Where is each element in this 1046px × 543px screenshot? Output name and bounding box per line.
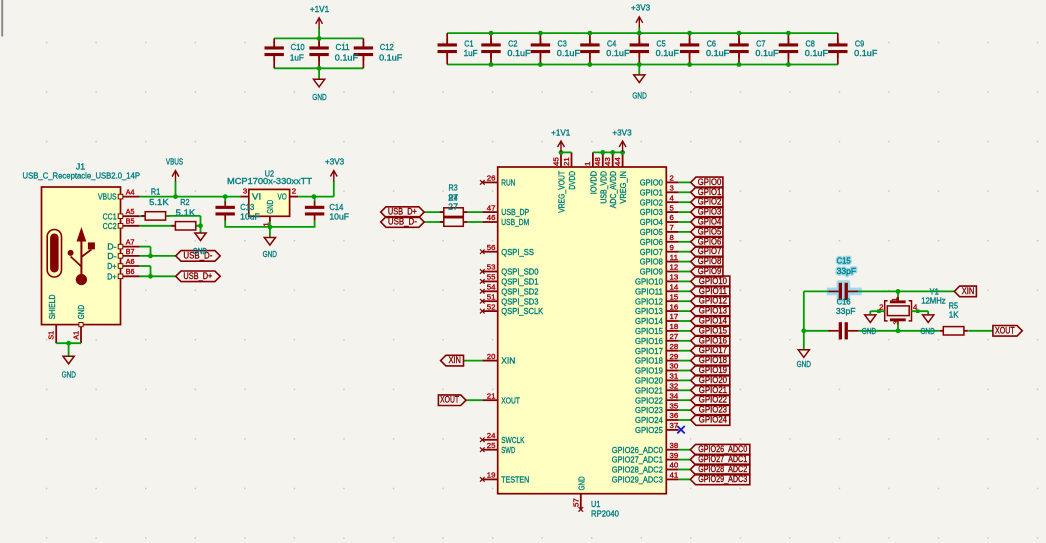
svg-text:1: 1 (892, 297, 899, 301)
svg-text:5.1K: 5.1K (149, 197, 169, 207)
svg-text:21: 21 (562, 157, 571, 166)
svg-text:1uF: 1uF (290, 53, 304, 63)
svg-text:40: 40 (670, 461, 679, 470)
svg-text:27: 27 (448, 202, 458, 212)
svg-text:21: 21 (487, 391, 496, 400)
svg-text:GPIO7: GPIO7 (640, 247, 663, 257)
svg-text:GPIO24: GPIO24 (635, 415, 663, 425)
svg-text:GPIO17: GPIO17 (635, 346, 663, 356)
svg-text:43: 43 (603, 157, 612, 166)
svg-text:VBUS: VBUS (98, 192, 117, 202)
svg-text:VO: VO (278, 192, 288, 202)
svg-text:GND: GND (76, 305, 86, 319)
svg-text:56: 56 (487, 243, 496, 252)
svg-text:A6: A6 (126, 257, 135, 266)
svg-text:11: 11 (670, 253, 679, 262)
svg-text:51: 51 (487, 292, 496, 301)
svg-text:24: 24 (487, 431, 496, 440)
svg-text:0.1uF: 0.1uF (557, 48, 580, 58)
svg-text:GPIO23: GPIO23 (635, 405, 663, 415)
svg-text:GPIO8: GPIO8 (698, 256, 722, 266)
svg-text:SHIELD: SHIELD (47, 295, 57, 320)
svg-text:GPIO29_ADC3: GPIO29_ADC3 (612, 475, 663, 485)
svg-text:10uF: 10uF (329, 212, 349, 222)
svg-text:GPIO21: GPIO21 (635, 385, 663, 395)
svg-text:A5: A5 (126, 207, 135, 216)
svg-text:U1: U1 (591, 499, 600, 509)
svg-text:27: 27 (670, 332, 679, 341)
svg-text:GPIO4: GPIO4 (698, 217, 722, 227)
svg-text:GND: GND (920, 326, 934, 336)
svg-text:R3: R3 (448, 182, 457, 192)
svg-text:C7: C7 (756, 38, 765, 48)
svg-text:17: 17 (670, 312, 679, 321)
svg-text:C8: C8 (806, 38, 815, 48)
svg-text:GND: GND (265, 200, 275, 214)
svg-text:57: 57 (572, 498, 581, 507)
svg-text:GPIO28_ADC2: GPIO28_ADC2 (612, 465, 663, 475)
svg-text:31: 31 (670, 372, 679, 381)
svg-text:USB_C_Receptacle_USB2.0_14P: USB_C_Receptacle_USB2.0_14P (23, 171, 141, 181)
svg-text:GPIO16: GPIO16 (699, 335, 727, 345)
svg-text:C16: C16 (837, 297, 851, 307)
svg-text:GPIO12: GPIO12 (699, 296, 727, 306)
svg-text:GND: GND (862, 326, 876, 336)
svg-text:GND: GND (312, 92, 326, 102)
svg-text:GPIO27_ADC1: GPIO27_ADC1 (698, 454, 747, 464)
svg-text:34: 34 (670, 391, 679, 400)
svg-text:USB_DP: USB_DP (501, 207, 529, 217)
svg-text:7: 7 (670, 223, 674, 232)
svg-text:C15: C15 (837, 256, 851, 266)
svg-text:5.1K: 5.1K (176, 207, 196, 217)
svg-text:GPIO25: GPIO25 (635, 425, 663, 435)
svg-text:2: 2 (879, 303, 883, 312)
svg-text:USB_D+: USB_D+ (388, 207, 417, 217)
svg-text:C5: C5 (656, 38, 665, 48)
svg-text:13: 13 (670, 273, 679, 282)
svg-text:1K: 1K (949, 310, 959, 320)
svg-text:GPIO6: GPIO6 (698, 236, 722, 246)
svg-text:GPIO15: GPIO15 (635, 326, 663, 336)
svg-text:GPIO5: GPIO5 (640, 227, 663, 237)
svg-text:+3V3: +3V3 (631, 3, 650, 13)
svg-text:1: 1 (583, 162, 592, 166)
svg-text:+1V1: +1V1 (310, 4, 329, 14)
svg-text:VBUS: VBUS (166, 157, 183, 167)
svg-text:3: 3 (243, 187, 247, 196)
svg-text:5: 5 (670, 203, 674, 212)
svg-text:45: 45 (551, 157, 560, 166)
svg-text:GPIO20: GPIO20 (635, 376, 663, 386)
svg-text:GPIO14: GPIO14 (635, 316, 663, 326)
svg-text:6: 6 (670, 213, 674, 222)
svg-text:QSPI_SS: QSPI_SS (501, 247, 534, 257)
svg-text:D+: D+ (107, 261, 116, 271)
svg-text:D-: D- (107, 251, 116, 261)
svg-text:12: 12 (670, 263, 679, 272)
svg-text:RP2040: RP2040 (591, 509, 619, 519)
svg-text:C12: C12 (380, 42, 394, 52)
svg-text:0.1uF: 0.1uF (379, 53, 402, 63)
svg-text:XIN: XIN (501, 356, 515, 366)
svg-text:4: 4 (670, 193, 674, 202)
svg-text:26: 26 (487, 174, 496, 183)
svg-text:GPIO1: GPIO1 (698, 187, 722, 197)
svg-text:19: 19 (487, 471, 496, 480)
svg-text:XOUT: XOUT (501, 395, 520, 405)
svg-text:ADC_AVDD: ADC_AVDD (608, 171, 618, 208)
svg-text:XOUT: XOUT (995, 325, 1015, 335)
svg-text:GPIO11: GPIO11 (635, 286, 663, 296)
svg-text:GPIO22: GPIO22 (635, 395, 663, 405)
svg-text:18: 18 (670, 322, 679, 331)
svg-text:0.1uF: 0.1uF (656, 48, 679, 58)
svg-text:GPIO12: GPIO12 (635, 296, 663, 306)
svg-text:36: 36 (670, 411, 679, 420)
svg-text:USB_DM: USB_DM (501, 217, 529, 227)
svg-text:GPIO13: GPIO13 (635, 306, 663, 316)
svg-text:48: 48 (593, 157, 602, 166)
svg-text:14: 14 (670, 283, 679, 292)
svg-text:32: 32 (670, 382, 679, 391)
svg-text:47: 47 (487, 203, 496, 212)
svg-text:GPIO9: GPIO9 (640, 267, 663, 277)
svg-text:XIN: XIN (962, 286, 975, 296)
svg-text:0.1uF: 0.1uF (755, 48, 778, 58)
svg-text:GPIO18: GPIO18 (699, 355, 727, 365)
svg-text:37: 37 (670, 421, 679, 430)
svg-text:C11: C11 (336, 42, 350, 52)
svg-text:25: 25 (487, 441, 496, 450)
svg-text:52: 52 (487, 302, 496, 311)
svg-text:MCP1700x-330xxTT: MCP1700x-330xxTT (227, 176, 313, 186)
svg-text:GPIO23: GPIO23 (699, 405, 727, 415)
svg-text:1uF: 1uF (464, 48, 478, 58)
svg-text:R2: R2 (180, 197, 189, 207)
svg-text:QSPI_SCLK: QSPI_SCLK (501, 306, 543, 316)
svg-text:C3: C3 (558, 38, 567, 48)
svg-text:0.1uF: 0.1uF (507, 48, 530, 58)
svg-text:GPIO15: GPIO15 (699, 325, 727, 335)
svg-text:IOVDD: IOVDD (588, 171, 598, 194)
svg-text:VREG_VOUT: VREG_VOUT (557, 170, 567, 212)
svg-text:GND: GND (797, 359, 811, 369)
svg-text:B5: B5 (126, 217, 135, 226)
svg-text:GPIO3: GPIO3 (640, 207, 663, 217)
svg-text:GPIO29_ADC3: GPIO29_ADC3 (698, 474, 747, 484)
svg-text:GPIO21: GPIO21 (699, 385, 727, 395)
svg-text:XIN: XIN (448, 355, 461, 365)
svg-text:DVDD: DVDD (567, 171, 577, 190)
svg-text:+1V1: +1V1 (551, 127, 570, 137)
svg-text:S1: S1 (47, 331, 56, 340)
svg-text:C13: C13 (240, 202, 254, 212)
svg-text:C2: C2 (508, 38, 517, 48)
svg-text:B6: B6 (126, 267, 135, 276)
svg-text:0.1uF: 0.1uF (706, 48, 729, 58)
svg-text:A4: A4 (126, 188, 135, 197)
svg-text:A7: A7 (126, 238, 135, 247)
svg-text:C1: C1 (464, 38, 473, 48)
svg-text:44: 44 (613, 157, 622, 166)
svg-text:+3V3: +3V3 (325, 157, 344, 167)
svg-text:GPIO10: GPIO10 (635, 277, 663, 287)
svg-text:39: 39 (670, 451, 679, 460)
svg-text:QSPI_SD2: QSPI_SD2 (501, 286, 538, 296)
svg-text:0.1uF: 0.1uF (854, 48, 877, 58)
svg-text:GPIO13: GPIO13 (699, 306, 727, 316)
svg-text:C10: C10 (291, 42, 305, 52)
svg-text:C9: C9 (855, 38, 864, 48)
svg-text:C14: C14 (329, 202, 343, 212)
svg-text:GPIO27_ADC1: GPIO27_ADC1 (612, 455, 663, 465)
svg-text:XOUT: XOUT (440, 395, 459, 405)
svg-text:RUN: RUN (501, 178, 515, 188)
svg-text:VREG_IN: VREG_IN (618, 171, 628, 204)
svg-text:GPIO18: GPIO18 (635, 356, 663, 366)
svg-text:R1: R1 (151, 186, 160, 196)
svg-text:VI: VI (252, 192, 261, 202)
svg-text:0.1uF: 0.1uF (805, 48, 828, 58)
svg-text:GND: GND (576, 476, 586, 490)
svg-text:GPIO6: GPIO6 (640, 237, 663, 247)
svg-text:35: 35 (670, 401, 679, 410)
svg-text:55: 55 (487, 273, 496, 282)
svg-text:29: 29 (670, 352, 679, 361)
svg-text:15: 15 (670, 292, 679, 301)
svg-text:4: 4 (913, 303, 917, 312)
svg-text:8: 8 (670, 233, 674, 242)
svg-text:0.1uF: 0.1uF (335, 53, 358, 63)
svg-text:GPIO26_ADC0: GPIO26_ADC0 (698, 444, 747, 454)
svg-text:41: 41 (670, 471, 679, 480)
svg-text:2: 2 (292, 187, 296, 196)
svg-text:GPIO0: GPIO0 (640, 178, 663, 188)
svg-text:GPIO7: GPIO7 (698, 246, 722, 256)
svg-text:GND: GND (632, 91, 646, 101)
svg-text:B7: B7 (126, 247, 135, 256)
svg-text:CC2: CC2 (103, 221, 117, 231)
svg-text:C4: C4 (607, 38, 616, 48)
svg-text:GPIO2: GPIO2 (640, 197, 663, 207)
svg-text:D+: D+ (107, 271, 116, 281)
svg-text:CC1: CC1 (103, 211, 117, 221)
svg-text:33pF: 33pF (836, 306, 856, 316)
svg-text:GND: GND (263, 249, 277, 259)
svg-text:GPIO11: GPIO11 (699, 286, 727, 296)
svg-text:GND: GND (193, 246, 207, 256)
svg-text:SWD: SWD (501, 445, 515, 455)
svg-text:46: 46 (487, 213, 496, 222)
svg-text:C6: C6 (707, 38, 716, 48)
svg-text:USB_D+: USB_D+ (183, 271, 212, 281)
svg-text:GND: GND (62, 369, 76, 379)
svg-text:30: 30 (670, 362, 679, 371)
svg-text:GPIO9: GPIO9 (698, 266, 722, 276)
svg-text:GPIO24: GPIO24 (699, 415, 727, 425)
svg-text:GPIO20: GPIO20 (699, 375, 727, 385)
svg-text:3: 3 (670, 184, 674, 193)
svg-text:9: 9 (670, 243, 674, 252)
svg-text:10uF: 10uF (240, 212, 260, 222)
svg-text:GPIO17: GPIO17 (699, 345, 727, 355)
svg-text:TESTEN: TESTEN (501, 475, 529, 485)
svg-text:GPIO19: GPIO19 (635, 366, 663, 376)
svg-text:GPIO22: GPIO22 (699, 395, 727, 405)
svg-text:GPIO19: GPIO19 (699, 365, 727, 375)
svg-text:20: 20 (487, 352, 496, 361)
svg-text:16: 16 (670, 302, 679, 311)
svg-text:USB_VDD: USB_VDD (598, 171, 608, 204)
svg-text:GPIO10: GPIO10 (699, 276, 727, 286)
svg-text:GPIO16: GPIO16 (635, 336, 663, 346)
svg-text:GPIO2: GPIO2 (698, 197, 722, 207)
svg-text:GPIO28_ADC2: GPIO28_ADC2 (698, 464, 747, 474)
svg-text:GPIO0: GPIO0 (698, 177, 722, 187)
svg-text:GPIO3: GPIO3 (698, 207, 722, 217)
svg-text:A1: A1 (71, 331, 80, 340)
svg-text:12MHz: 12MHz (921, 296, 946, 306)
svg-text:GPIO8: GPIO8 (640, 257, 663, 267)
svg-text:GPIO14: GPIO14 (699, 316, 727, 326)
svg-text:54: 54 (487, 283, 496, 292)
svg-text:2: 2 (670, 174, 674, 183)
svg-text:0.1uF: 0.1uF (606, 48, 629, 58)
svg-text:3: 3 (894, 320, 901, 324)
svg-text:GPIO1: GPIO1 (640, 187, 663, 197)
svg-text:QSPI_SD3: QSPI_SD3 (501, 296, 538, 306)
svg-text:53: 53 (487, 263, 496, 272)
svg-text:QSPI_SD0: QSPI_SD0 (501, 267, 538, 277)
svg-text:38: 38 (670, 441, 679, 450)
svg-text:SWCLK: SWCLK (501, 435, 524, 445)
svg-text:GPIO5: GPIO5 (698, 226, 722, 236)
svg-text:GPIO4: GPIO4 (640, 217, 663, 227)
svg-text:USB_D-: USB_D- (388, 217, 417, 227)
svg-text:+3V3: +3V3 (612, 127, 631, 137)
svg-text:GPIO26_ADC0: GPIO26_ADC0 (612, 445, 663, 455)
svg-text:QSPI_SD1: QSPI_SD1 (501, 277, 538, 287)
svg-text:33pF: 33pF (837, 266, 857, 276)
svg-text:28: 28 (670, 342, 679, 351)
